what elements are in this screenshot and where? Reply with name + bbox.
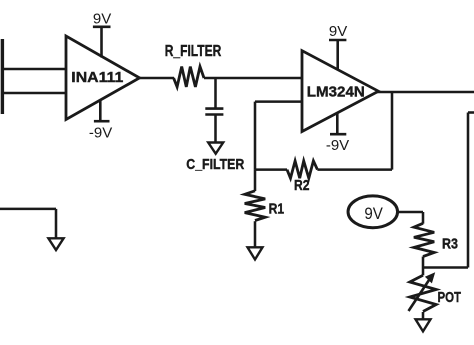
svg-text:LM324N: LM324N	[307, 83, 365, 100]
power tick 9V (LM324N)	[329, 39, 346, 42]
wire: down to ground	[55, 209, 58, 238]
wire: C_FILTER to ground	[214, 115, 217, 143]
wire: output feedback vertical	[391, 92, 394, 170]
wire: INA111 output to R_FILTER	[138, 77, 174, 80]
wire: POT to ground	[422, 312, 425, 319]
wire: input- to INA111	[1, 92, 66, 95]
svg-text:INA111: INA111	[71, 69, 123, 86]
svg-text:R2: R2	[294, 177, 310, 194]
wire: R1 to ground	[254, 221, 257, 247]
svg-text:R3: R3	[442, 235, 458, 252]
wire: junction to right vertical	[423, 266, 468, 269]
resistor R_FILTER	[174, 67, 204, 87]
capacitor C_FILTER top plate	[205, 107, 223, 110]
ground (R1)	[248, 247, 263, 259]
wire: left edge horizontal	[0, 208, 56, 211]
svg-text:R_FILTER: R_FILTER	[165, 43, 222, 60]
wire: input+ to INA111	[1, 68, 66, 71]
wire: R3 top lead	[422, 212, 425, 224]
power tick -9V (LM324N)	[330, 133, 346, 136]
wire: 9V rail into LM324N	[336, 40, 339, 70]
svg-text:POT: POT	[438, 290, 462, 306]
wire: LM324N to -9V rail	[336, 113, 339, 135]
wire: R3 to POT junction	[422, 257, 425, 276]
wire: LM324N output to right edge	[377, 91, 474, 94]
input connector bar	[1, 39, 4, 114]
wire: R_FILTER to LM324N + input	[204, 77, 302, 80]
ground (C_FILTER)	[208, 143, 223, 154]
potentiometer POT	[410, 275, 436, 311]
wire: R2 to output vertical	[317, 168, 392, 171]
op-amp U1 INA111 triangle	[66, 36, 140, 120]
svg-text:9V: 9V	[329, 23, 347, 40]
svg-text:-9V: -9V	[89, 124, 112, 141]
resistor R1	[245, 191, 266, 221]
battery 9V oval	[348, 196, 398, 228]
ground (POT)	[416, 319, 431, 331]
power tick -9V (INA111)	[94, 120, 110, 123]
svg-text:C_FILTER: C_FILTER	[186, 157, 244, 173]
ground (left)	[48, 238, 63, 250]
svg-text:9V: 9V	[93, 11, 111, 28]
wire: LM324N - input feedback left	[255, 100, 302, 103]
wire: INA111 to -9V rail	[99, 100, 102, 122]
svg-text:-9V: -9V	[326, 137, 349, 154]
svg-text:9V: 9V	[364, 204, 383, 223]
svg-text:R1: R1	[269, 200, 285, 217]
wire: +9V rail into INA111	[100, 27, 103, 58]
wire: R1 top lead	[254, 170, 257, 191]
capacitor C_FILTER bottom plate	[205, 113, 223, 116]
resistor R3	[414, 223, 434, 256]
wire: battery to R3	[398, 211, 423, 214]
power tick +9V (INA111)	[93, 25, 111, 28]
wire: feedback vertical down	[254, 102, 257, 170]
op-amp U2 LM324N triangle	[302, 51, 378, 132]
POT wiper arrow	[409, 279, 431, 312]
wire: junction to R2	[255, 168, 287, 171]
wire: right vertical up	[467, 113, 470, 268]
wire: junction down to C_FILTER	[214, 78, 217, 109]
resistor R2	[287, 161, 317, 178]
wire: stub to right edge	[468, 111, 474, 114]
